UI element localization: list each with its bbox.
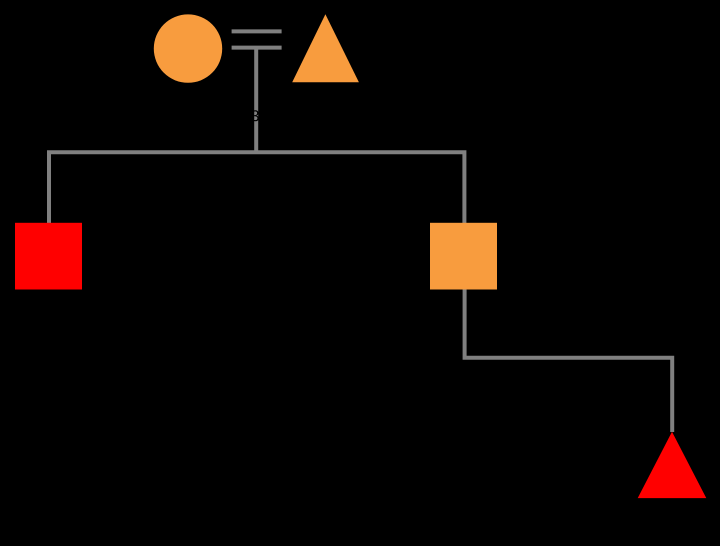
triangle: grandchild (red) [638, 432, 707, 498]
wire: from child 2 down-right elbow to grandchild [465, 289, 673, 432]
square: child 2 (orange) [430, 223, 497, 290]
wire: sibling line with drops to child 1 and child 2 [49, 152, 464, 223]
triangle: father [292, 14, 359, 82]
wire: descent stem from union to sibling line [254, 48, 258, 153]
label 3 on descent stem [251, 110, 258, 121]
circle: mother [154, 14, 222, 82]
union double line (mother = father) [232, 31, 282, 47]
square: child 1 (red) [15, 223, 82, 290]
